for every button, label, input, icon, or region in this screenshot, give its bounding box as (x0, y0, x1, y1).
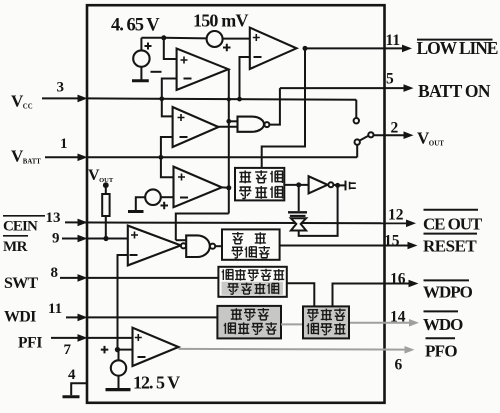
wire V3 to U4 minus input (161, 196, 174, 198)
pin 11 WDI input wire (66, 316, 80, 318)
wire U4 plus input from Vbatt node (161, 157, 174, 177)
svg-text:5: 5 (386, 71, 394, 88)
node dot R1 to MR wire (103, 236, 108, 241)
current source V2 150mV (207, 31, 223, 47)
reference node dot (1.25V) (115, 347, 120, 352)
wire U3 minus input to Vbatt rail (161, 137, 173, 157)
switch SW1 blade (359, 136, 369, 141)
pin 7 PFI input wire (51, 337, 80, 339)
NAND2 gate (reset) (186, 235, 210, 257)
node dot Vcc/U2 (237, 97, 242, 102)
wire N1 to 150mV source (164, 37, 207, 40)
wire U4 output to bus A (222, 186, 229, 188)
pin 1 Vbatt input wire (45, 156, 80, 158)
svg-text:7: 7 (64, 342, 72, 358)
node dot U2 output (303, 46, 308, 51)
svg-text:12: 12 (388, 207, 404, 224)
block B1 chip-select output control (235, 168, 284, 201)
pin 11 LOW LINE output wire (305, 47, 404, 49)
svg-text:LOW LINE: LOW LINE (417, 38, 498, 58)
svg-text:PFO: PFO (425, 342, 457, 361)
NAND1 gate (switchover) (238, 117, 265, 132)
svg-text:WDPO: WDPO (423, 283, 473, 302)
wire NAND2 upper input (176, 239, 186, 241)
wire PFI to U5 plus input (87, 337, 133, 339)
wire V3 to ground (136, 197, 145, 210)
switch SW1 lower contact from Vbatt (356, 145, 358, 157)
node dot inverter output (335, 183, 340, 188)
pass transistor Q2 channel (hourglass) (291, 218, 306, 230)
wire U1 plus input from N1 (164, 38, 177, 59)
node N1 junction dot (4.65V ref) (161, 35, 166, 40)
wire U3 plus input from Vcc node (162, 99, 173, 117)
svg-text:4: 4 (68, 367, 76, 383)
node dot Vcc/U1 (159, 96, 164, 101)
svg-text:MR: MR (3, 239, 28, 255)
pass transistor Q2 gate plates (288, 211, 307, 213)
pin 3 Vcc input wire (42, 97, 80, 99)
svg-text:11: 11 (48, 301, 62, 317)
IC outer box (87, 5, 385, 403)
ground under V3 (128, 210, 144, 213)
comparator U4 (battery switchover) (174, 167, 222, 208)
V3 plus mark (161, 202, 169, 210)
bus A vertical wire (U1 output) (228, 69, 230, 213)
svg-text:9: 9 (52, 231, 60, 247)
svg-text:11: 11 (386, 32, 401, 49)
reference source V3 (145, 189, 161, 205)
wire WDPO from timer (333, 284, 385, 307)
wire U2 minus input to Vcc rail (240, 57, 250, 99)
node dot bus A at NAND1 input (226, 119, 231, 124)
block B2 reset generator (222, 229, 280, 259)
svg-text:WDO: WDO (423, 315, 463, 334)
switch SW1 pole (368, 132, 373, 137)
resistor R1 (Vout pull-up) (105, 185, 107, 194)
node dot U4 output (226, 185, 231, 190)
wire NAND1 output to BATT ON (269, 88, 280, 125)
switch SW1 upper contact from Vcc (355, 100, 357, 118)
svg-text:4. 65 V: 4. 65 V (111, 16, 160, 36)
wire V2 to comparator U2 (223, 38, 250, 40)
wire B1 output to inverter (284, 184, 308, 186)
wire node to U5 minus input (118, 349, 133, 351)
pin 2 Vout output wire (373, 134, 405, 136)
svg-text:BATT ON: BATT ON (418, 81, 491, 101)
svg-text:WDI: WDI (4, 309, 36, 326)
inverter U7 (309, 176, 328, 193)
plus mark on reference node wire (101, 346, 109, 354)
pin 15 RESET output wire (280, 245, 409, 247)
svg-text:SWT: SWT (4, 275, 38, 292)
block B3 reset watchdog timebase (218, 267, 286, 297)
ground under V1 (140, 67, 142, 80)
source V4 12.5V (111, 360, 126, 375)
svg-text:12. 5 V: 12. 5 V (133, 373, 180, 393)
svg-text:RESET: RESET (423, 237, 477, 256)
Vcc internal rail wire (87, 98, 356, 99)
svg-text:1: 1 (60, 136, 68, 152)
wire gate node down to pass gate (298, 185, 300, 211)
wire U3 output to NAND1 lower input (219, 126, 238, 128)
pin 14 WDO output wire (grey) (349, 322, 411, 324)
comparator U3 (Vcc/Vbatt) (173, 107, 219, 147)
block B4 watchdog input detect (217, 306, 281, 339)
pin 13 CEIN input arrowhead (78, 219, 88, 227)
wire MR line to comparator U6 (87, 238, 128, 240)
comparator U1 (4.65V reset threshold) (177, 49, 229, 91)
svg-text:CE OUT: CE OUT (423, 215, 483, 234)
V1 minus mark (151, 71, 162, 73)
pin 9 MR input wire (62, 238, 80, 240)
svg-text:3: 3 (57, 80, 65, 96)
pin 8 SWT input wire (60, 277, 80, 279)
comparator U6 (MR input) (128, 226, 181, 266)
pin 16 WDPO output wire (333, 283, 411, 285)
V2 plus mark (223, 44, 231, 52)
Vout terminal dot (103, 182, 109, 188)
wire WDI to B4 (87, 316, 217, 318)
wire U1 minus input to Vcc rail (162, 79, 177, 99)
voltage source V1 4.65V (133, 50, 149, 66)
svg-text:16: 16 (390, 271, 406, 288)
wire inverter node to Q2 source (U loop) (299, 185, 338, 236)
svg-text:PFI: PFI (18, 335, 42, 352)
transistor Q1 gate symbol (338, 184, 345, 186)
comparator U5 (PFI) (133, 328, 179, 366)
wire U2 output down to CE control (262, 48, 305, 167)
node dot B1 output (296, 182, 301, 187)
wire B4 to B5 (grey) (281, 323, 303, 325)
wire U6 minus input down to reference node (118, 255, 128, 350)
pin 6 PFO output wire (grey) (179, 348, 407, 351)
pin 5 BATT ON output wire (280, 87, 405, 89)
pin 4 ground stub wire (71, 383, 87, 395)
node dot bus A at Vcc rail (227, 97, 231, 101)
svg-text:150 mV: 150 mV (193, 11, 248, 31)
wire NAND1 upper input (229, 120, 238, 122)
V1 plus mark (145, 43, 152, 50)
svg-text:2: 2 (391, 120, 399, 137)
svg-text:6: 6 (395, 357, 403, 374)
comparator U2 (low line) (250, 28, 297, 69)
svg-text:15: 15 (384, 233, 400, 250)
block B5 watchdog timer (303, 306, 349, 338)
svg-text:CEIN: CEIN (3, 219, 38, 235)
pin 4 ground symbol (63, 395, 80, 398)
pin 12 CE OUT arrowhead (406, 220, 416, 228)
wire SWT to B3 (87, 277, 218, 279)
CEIN / CE internal wire to pin 12 (65, 221, 408, 224)
wire NAND2 output to reset generator (215, 245, 222, 247)
wire bus A elbow to NAND2 (176, 214, 229, 241)
svg-text:13: 13 (46, 210, 61, 226)
wire B3 to watchdog timer (287, 283, 315, 306)
Vbatt internal rail wire (87, 156, 357, 158)
ground under V4 (118, 376, 120, 388)
node dot Vbatt/U3 (159, 155, 164, 160)
svg-text:8: 8 (51, 265, 59, 281)
